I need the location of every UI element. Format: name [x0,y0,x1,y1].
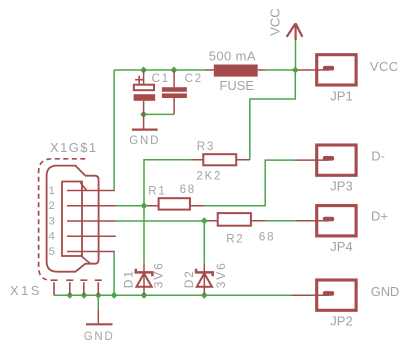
svg-text:R1: R1 [148,185,166,197]
USB connector outer body [47,166,99,272]
wire fuse right to JP1 node [265,69,298,71]
USB shield pin stub 3 [80,280,87,295]
capacitor C2 pins [173,70,175,114]
header JP2 box [317,280,356,310]
wire VCC node down-left to R3 right [250,70,295,160]
svg-text:C2: C2 [185,73,203,85]
junction pin5 gnd [111,292,118,299]
USB pin 1 line [67,190,115,192]
junction C2 top [170,67,177,74]
svg-text:500 mA: 500 mA [209,49,256,64]
svg-text:1: 1 [49,185,55,197]
resistor R3 body [203,154,236,165]
USB connector X1 shield dashed outline [39,159,86,280]
wire VCC top horizontal [114,69,205,71]
svg-text:2K2: 2K2 [196,171,222,183]
svg-text:JP4: JP4 [330,239,352,254]
VCC supply arrow [287,23,303,40]
junction node B [201,217,208,224]
USB tongue top chamfer [80,183,87,191]
svg-text:GND: GND [371,284,399,299]
svg-text:VCC: VCC [267,8,282,35]
ground symbol bottom [97,310,99,324]
svg-text:3: 3 [49,215,55,227]
junction D1 anode [141,292,148,299]
USB pin 5 line [67,251,115,253]
capacitor C1 plus sign [135,76,143,84]
resistor R2 body [218,213,251,226]
USB pin 3 line [67,220,116,222]
svg-text:68: 68 [180,184,196,196]
junction shield stub 3 [81,292,88,299]
wire node A down to D1 [143,206,145,264]
capacitor C1 bottom plate [134,94,156,101]
svg-text:3V6: 3V6 [214,261,228,288]
wire R2 right to JP4 [265,220,295,222]
header JP4 pin [295,220,329,222]
USB shield pin stub 4 [95,280,102,295]
svg-text:2: 2 [49,200,55,212]
capacitor C2 top plate [162,87,187,92]
USB shield pin stub 1 [51,280,58,295]
junction shield stub 4 [95,292,102,299]
svg-text:X1G$1: X1G$1 [50,140,97,155]
svg-text:JP1: JP1 [330,88,352,103]
wire GND bus [54,294,292,296]
wire node B down to D2 [203,221,205,264]
USB shield pin stub 2 [66,280,73,295]
svg-text:GND: GND [84,331,115,343]
header JP2 pin [292,294,330,296]
USB connector tongue [62,182,82,257]
wire USB pin3 to node B [115,220,204,222]
wire C1 bottom node to C2 bottom [144,113,175,115]
header JP3 box [317,145,356,175]
svg-text:X1S: X1S [10,283,42,298]
wire R1 right to JP3 [205,160,295,206]
junction D2 anode [201,292,208,299]
svg-text:FUSE: FUSE [219,78,254,93]
svg-text:JP2: JP2 [330,313,352,328]
wire USB pin5 down to GND bus [113,252,115,296]
fuse pins [206,69,266,71]
junction C1 bottom [140,111,147,118]
capacitor C2 bottom plate [162,93,187,98]
svg-text:R3: R3 [197,141,215,153]
junction node A [141,202,148,209]
junction C1 top [140,67,147,74]
svg-text:3V6: 3V6 [152,261,166,288]
wire GND bus drop to ground symbol [97,295,99,309]
svg-text:68: 68 [259,231,275,243]
junction shield stub 2 [66,292,73,299]
resistor R3 pins [190,159,250,161]
header JP1 pin [298,69,329,71]
resistor R1 pins [147,205,205,207]
USB pin 4 line [67,235,116,237]
svg-text:4: 4 [49,231,55,243]
svg-text:D2: D2 [182,269,196,288]
resistor R2 pins [207,220,265,222]
wire USB pin2 to node A [115,205,144,207]
zener diode D2 [196,264,213,296]
svg-text:VCC: VCC [370,59,399,74]
svg-text:C1: C1 [152,73,170,85]
USB pin 2 line [67,205,116,207]
zener diode D1 [136,264,153,296]
svg-text:D1: D1 [122,269,136,288]
header JP1 box [317,55,356,85]
svg-text:5: 5 [49,246,55,258]
svg-text:JP3: JP3 [330,178,352,193]
svg-text:D+: D+ [371,209,388,224]
resistor R1 body [159,198,190,209]
junction VCC node [292,67,299,74]
capacitor C1 pins [143,70,145,129]
svg-text:R2: R2 [226,234,244,246]
svg-text:D-: D- [371,148,385,163]
fuse F1 body [214,65,258,77]
wire R3 left to node A [144,160,190,206]
header JP4 box [317,206,356,236]
capacitor C1 top plate [134,85,154,91]
USB tongue bottom chamfer [80,255,90,263]
header JP3 pin [295,159,330,161]
wire VCC arrow stem to fuse node [295,40,297,70]
ground symbol at C1 [132,129,158,131]
svg-text:GND: GND [129,135,160,147]
wire VCC left vertical to USB pin1 [113,70,115,191]
